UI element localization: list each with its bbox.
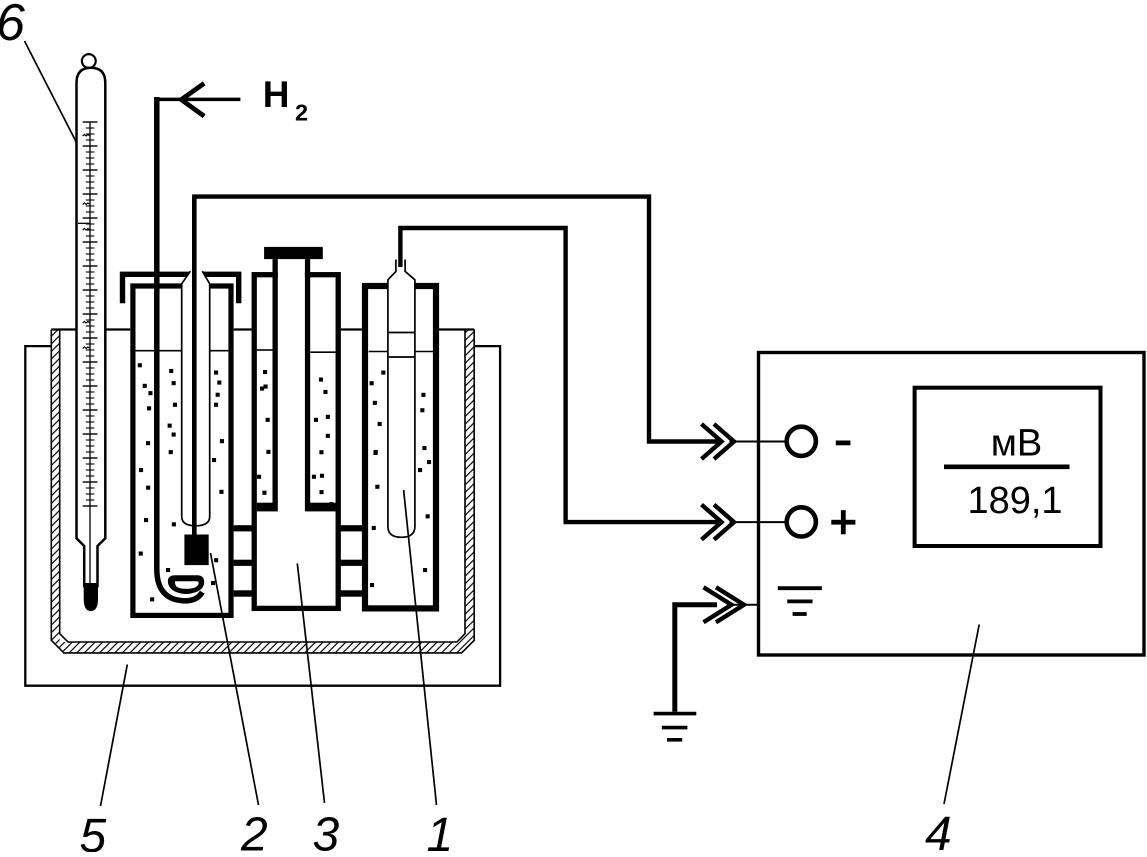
H2 inlet tube <box>157 97 203 601</box>
thermometer body <box>77 68 106 586</box>
electrode lead wire (minus) <box>192 198 197 537</box>
reference electrode tube 1 <box>388 260 415 538</box>
thermometer 6 ball top <box>82 54 96 68</box>
electrolyte dots <box>138 363 431 601</box>
svg-text:мВ: мВ <box>991 423 1042 465</box>
leader line 2 <box>211 553 259 805</box>
H2 outlet bell <box>168 576 204 594</box>
display window <box>915 388 1101 546</box>
platinum electrode 2 <box>184 535 208 566</box>
terminal plus <box>787 507 816 536</box>
connector chevrons plus <box>702 505 735 540</box>
connecting tubes <box>234 525 252 531</box>
glass tube of hydrogen electrode <box>182 271 210 526</box>
wire minus (hydrogen electrode to meter) <box>194 197 719 442</box>
ground wire <box>675 605 717 712</box>
leader line 5 <box>101 665 128 807</box>
leader line 1 <box>404 490 437 805</box>
stopper cap <box>264 247 323 259</box>
terminal minus <box>787 427 816 456</box>
hydrogen electrode vessel <box>130 283 233 618</box>
leader line 6 <box>25 41 79 147</box>
earth ground symbol <box>654 712 697 716</box>
inner tube interior <box>278 259 305 511</box>
svg-text:6: 6 <box>0 0 25 52</box>
svg-text:H: H <box>263 74 290 115</box>
inner tube shelf <box>257 503 278 512</box>
wire plus (electrode 1 to meter) <box>400 228 719 522</box>
water bath hatched wall <box>51 330 474 653</box>
H2 feed arrow <box>154 98 240 102</box>
connector chevrons minus <box>702 424 735 459</box>
electrolyte level right vessel <box>369 351 388 353</box>
electrolyte level left vessel <box>136 350 182 352</box>
thermometer scale <box>78 122 98 584</box>
thermometer bulb <box>84 584 97 611</box>
svg-text:4: 4 <box>925 808 952 852</box>
vessel collar rim <box>123 274 239 303</box>
middle vessel <box>254 275 338 609</box>
svg-text:5: 5 <box>80 810 107 852</box>
outer vessel 5 <box>25 346 500 686</box>
svg-text:189,1: 189,1 <box>967 480 1062 522</box>
electrode junction bands <box>389 332 414 334</box>
millivoltmeter 4 <box>759 353 1145 656</box>
water level <box>51 328 76 330</box>
inner tube walls <box>273 259 278 503</box>
right vessel <box>365 286 436 608</box>
svg-text:1: 1 <box>427 809 454 852</box>
thin leads into meter <box>730 441 788 443</box>
leader line 3 <box>297 564 324 804</box>
fraction line <box>944 464 1070 469</box>
leader line 4 <box>944 625 979 805</box>
electrolyte level middle vessel <box>257 349 273 351</box>
chassis ground symbol <box>778 586 822 590</box>
svg-text:2: 2 <box>295 99 308 125</box>
svg-text:2: 2 <box>240 809 268 853</box>
connector chevrons ground <box>704 587 745 622</box>
svg-text:3: 3 <box>313 809 340 853</box>
